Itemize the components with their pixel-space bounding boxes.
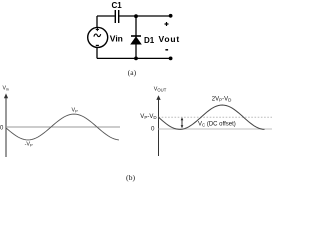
graph b-left: zero axis (horizontal) (6, 126, 120, 128)
node: output terminal + (169, 14, 173, 18)
svg-text:VP: VP (72, 107, 79, 113)
svg-text:(b): (b) (126, 173, 135, 182)
svg-text:Vout: Vout (159, 34, 180, 44)
graph b-right: output sine curve (159, 105, 265, 129)
svg-text:C1: C1 (112, 1, 123, 10)
graph b-left: input sine curve (6, 114, 119, 140)
graph b-left: Vin axis (vertical with arrow) (4, 93, 8, 157)
svg-text:VP-VD: VP-VD (140, 114, 157, 120)
svg-text:(a): (a) (128, 68, 137, 77)
node: junction of D1 anode (bottom) (134, 57, 138, 61)
wire: top rail right segment (C1 to output +) (119, 15, 170, 17)
svg-text:0: 0 (151, 125, 155, 132)
graph b-right: zero line (159, 128, 273, 130)
diode D1 (131, 36, 141, 44)
graph b-right: DC offset double arrow (181, 117, 184, 128)
svg-text:D1: D1 (144, 36, 155, 45)
svg-text:0: 0 (0, 125, 4, 131)
svg-text:Vin: Vin (3, 86, 9, 92)
node: junction of C1, D1 cathode (top) (134, 14, 138, 18)
svg-text:Vin: Vin (110, 33, 123, 43)
AC source Vin (88, 27, 108, 47)
label output polarity - (165, 49, 168, 51)
graph b-right: DC offset dotted line (159, 116, 273, 118)
svg-text:-VP: -VP (25, 142, 33, 148)
wire: diode branch vertical (135, 16, 137, 58)
capacitor C1 (115, 10, 118, 23)
wire: source bottom to bottom rail (97, 47, 171, 58)
wire: top rail left segment (source top to C1) (97, 16, 115, 28)
svg-text:VOUT: VOUT (154, 87, 167, 93)
svg-text:VC (DC offset): VC (DC offset) (198, 121, 236, 127)
node: output terminal - (169, 57, 173, 61)
label output polarity + (165, 22, 169, 26)
graph b-right: Vout axis (vertical with arrow) (156, 95, 160, 156)
svg-text:2VP-VD: 2VP-VD (212, 97, 232, 103)
